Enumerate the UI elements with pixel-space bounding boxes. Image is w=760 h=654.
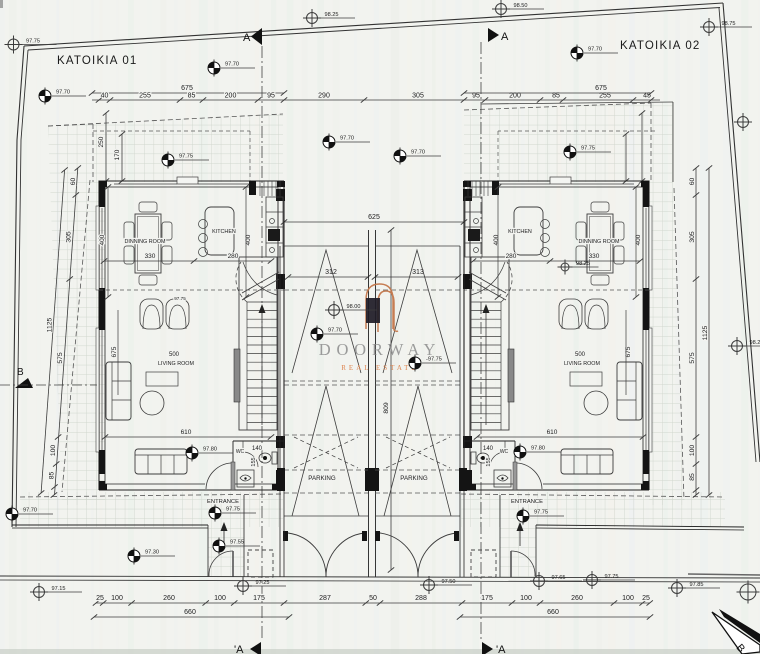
svg-text:97.85: 97.85	[690, 582, 704, 588]
plot boundary outer line	[24, 3, 723, 46]
svg-text:675: 675	[181, 85, 193, 92]
window left wall lower	[645, 330, 647, 450]
svg-text:255: 255	[599, 93, 611, 100]
svg-text:DINNING ROOM: DINNING ROOM	[124, 239, 166, 245]
spot level 97.30	[128, 548, 175, 565]
spot level 97.70	[39, 88, 86, 105]
svg-text:97.70: 97.70	[411, 150, 425, 156]
toilet	[259, 453, 271, 463]
svg-text:-97.75: -97.75	[426, 357, 442, 363]
dimension 250/170 right	[641, 113, 643, 181]
left house exterior wall outline	[464, 181, 649, 490]
svg-text:97.70: 97.70	[225, 62, 239, 68]
dining table	[587, 214, 613, 273]
svg-text:660: 660	[547, 609, 559, 616]
armchairs	[140, 299, 163, 329]
benchmark 97.75	[5, 36, 57, 54]
dimension 660 bottom left	[94, 616, 289, 618]
svg-text:100: 100	[214, 595, 226, 602]
dimension 660 bottom right	[460, 616, 650, 618]
svg-text:25: 25	[642, 595, 650, 602]
benchmark 98.25	[728, 337, 760, 355]
svg-text:1125: 1125	[46, 317, 53, 332]
window top wall 1	[571, 183, 634, 185]
watermark doorway arch	[366, 284, 398, 332]
wall poche segments	[99, 181, 107, 187]
left house	[93, 131, 285, 490]
washbasin	[237, 470, 254, 487]
benchmark 97.50	[420, 576, 472, 594]
wall poche segments	[641, 181, 649, 187]
dimension 170 left	[121, 134, 123, 181]
walkway right	[535, 525, 537, 577]
spot level -97.75	[409, 355, 456, 372]
stair winder arc	[236, 262, 247, 302]
dimension 312	[288, 276, 368, 278]
svg-text:'A: 'A	[496, 644, 506, 654]
svg-text:290: 290	[318, 93, 330, 100]
dimension chain bottom row1	[96, 602, 650, 604]
svg-text:97.75: 97.75	[605, 574, 619, 580]
interior dims right house	[473, 260, 640, 262]
window left wall upper	[101, 208, 103, 288]
spot level 97.75	[162, 152, 209, 169]
svg-text:97.80: 97.80	[203, 447, 217, 453]
svg-text:25: 25	[96, 595, 104, 602]
wc partition	[233, 440, 284, 442]
svg-text:98.25: 98.25	[325, 12, 339, 18]
sofa bottom	[561, 449, 613, 474]
svg-text:200: 200	[509, 93, 521, 100]
dining table	[135, 214, 161, 273]
center dividing wall	[368, 230, 370, 577]
svg-text:98.25: 98.25	[750, 340, 760, 346]
kitchen island	[514, 207, 543, 255]
spot level 97.70	[394, 148, 441, 165]
svg-text:313: 313	[412, 269, 424, 276]
svg-text:KATOIKIA 02: KATOIKIA 02	[620, 40, 701, 52]
svg-text:ENTRANCE: ENTRANCE	[511, 499, 543, 505]
svg-text:100: 100	[50, 445, 57, 457]
svg-text:85: 85	[48, 472, 55, 480]
svg-text:575: 575	[57, 352, 64, 364]
upper floor dashed line	[93, 130, 250, 132]
svg-text:400: 400	[493, 234, 500, 245]
svg-text:305: 305	[66, 231, 73, 243]
svg-text:170: 170	[114, 149, 121, 160]
svg-text:500: 500	[169, 352, 180, 358]
stair arrow	[261, 310, 263, 425]
wc partition	[464, 440, 515, 442]
svg-text:WC: WC	[236, 449, 245, 455]
double gate left lane	[288, 533, 326, 577]
spot level 97.75	[564, 144, 611, 161]
svg-text:'A: 'A	[234, 644, 244, 654]
svg-text:97.75: 97.75	[581, 146, 595, 152]
street line	[0, 576, 760, 578]
dimension chain top (675 overall left)	[92, 92, 284, 94]
svg-text:97.75: 97.75	[226, 507, 240, 513]
window top wall 2	[198, 183, 249, 185]
svg-text:97.65: 97.65	[552, 575, 566, 581]
benchmark 98.50	[492, 0, 544, 18]
upper floor dashed line	[498, 130, 655, 132]
coffee table	[584, 391, 608, 415]
section marker A bottom-right	[482, 642, 506, 654]
entrance door	[231, 462, 235, 490]
svg-text:97.70: 97.70	[56, 90, 70, 96]
svg-text:675: 675	[595, 85, 607, 92]
benchmark 97.85	[668, 579, 720, 597]
section marker A top-right	[488, 28, 509, 43]
staircase	[471, 257, 509, 430]
window left wall lower	[101, 330, 103, 450]
kitchen stools	[541, 220, 550, 229]
svg-text:97.75: 97.75	[174, 296, 186, 301]
section marker A bottom-left	[234, 642, 261, 654]
building envelope dashed right	[464, 103, 651, 110]
svg-text:B: B	[17, 367, 24, 378]
svg-text:140: 140	[252, 446, 263, 452]
svg-text:97.70: 97.70	[23, 508, 37, 514]
svg-text:97.50: 97.50	[442, 579, 456, 585]
svg-text:100: 100	[520, 595, 532, 602]
benchmark 97.15	[30, 583, 82, 601]
svg-text:WC: WC	[500, 449, 509, 455]
window sill top	[177, 177, 198, 184]
svg-text:98.25: 98.25	[576, 261, 590, 267]
svg-text:ENTRANCE: ENTRANCE	[207, 499, 239, 505]
gate pillar dashed left	[248, 550, 273, 577]
wc door arc	[243, 452, 258, 467]
sofa vertical	[106, 362, 131, 420]
window top wall 1	[114, 183, 177, 185]
svg-text:95: 95	[472, 93, 480, 100]
benchmark 97.75	[583, 571, 635, 589]
svg-text:KATOIKIA 01: KATOIKIA 01	[57, 55, 138, 67]
svg-text:60: 60	[689, 178, 696, 186]
dining chairs	[139, 202, 157, 212]
svg-text:287: 287	[319, 595, 331, 602]
dimension chain right side	[695, 168, 697, 495]
svg-text:85: 85	[188, 93, 196, 100]
north arrow B bottom right	[712, 609, 760, 654]
spot level 97.80	[514, 444, 561, 461]
toilet	[477, 453, 489, 463]
veranda tiles right house	[464, 102, 673, 182]
svg-text:LIVING ROOM: LIVING ROOM	[158, 361, 194, 367]
svg-text:DOORWAY: DOORWAY	[319, 340, 442, 359]
svg-text:675: 675	[111, 346, 118, 357]
staircase	[239, 257, 277, 430]
svg-text:98.00: 98.00	[347, 304, 361, 310]
window sill top	[550, 177, 571, 184]
svg-text:97.70: 97.70	[340, 136, 354, 142]
dimension 625 center	[284, 221, 464, 223]
svg-text:280: 280	[228, 253, 239, 260]
svg-text:97.75: 97.75	[534, 510, 548, 516]
left house exterior wall outline	[99, 181, 284, 490]
veranda dashed south edge	[20, 494, 283, 497]
stair side wall	[508, 349, 514, 402]
front fence left	[12, 524, 208, 526]
kitchen counter	[266, 197, 283, 257]
lane solid bottom line	[284, 515, 368, 517]
dining chairs	[591, 202, 609, 212]
svg-text:100: 100	[622, 595, 634, 602]
watermark door panel	[366, 298, 380, 323]
svg-text:95: 95	[267, 93, 275, 100]
svg-text:97.30: 97.30	[145, 550, 159, 556]
benchmark 98.25	[303, 9, 355, 27]
svg-text:97.55: 97.55	[230, 540, 244, 546]
dimension 250 left	[105, 113, 107, 181]
kitchen island	[205, 207, 234, 255]
svg-text:97.75: 97.75	[179, 154, 193, 160]
counter hatch	[487, 181, 489, 196]
svg-text:155: 155	[251, 457, 257, 466]
washbasin	[494, 470, 511, 487]
dimension 1125 left	[41, 170, 65, 493]
walkway gate left	[209, 551, 233, 576]
svg-text:85: 85	[689, 473, 696, 481]
lane hatch triangles left	[292, 250, 361, 373]
floor overhang dashed across	[464, 289, 649, 291]
small benchmark 98.25 dining right	[558, 260, 599, 275]
svg-text:140: 140	[483, 446, 494, 452]
svg-text:200: 200	[225, 93, 237, 100]
svg-text:97.75: 97.75	[26, 39, 40, 45]
floor overhang dashed across	[99, 289, 284, 291]
svg-text:400: 400	[99, 234, 106, 245]
svg-text:97.70: 97.70	[328, 328, 342, 334]
svg-text:575: 575	[689, 352, 696, 364]
parking lane edges	[284, 245, 368, 247]
veranda tiles left house	[48, 114, 283, 182]
benchmark 98.75	[700, 18, 752, 36]
svg-text:97.15: 97.15	[52, 586, 66, 592]
stair arrow	[485, 310, 487, 425]
kitchen counter	[465, 197, 482, 257]
svg-text:1125: 1125	[702, 325, 709, 340]
dimension 313	[375, 276, 458, 278]
armchairs	[585, 299, 608, 329]
svg-text:97.80: 97.80	[531, 446, 545, 452]
section line A-A left	[261, 46, 263, 641]
stair side wall	[234, 349, 240, 402]
spot level 97.70	[311, 326, 358, 343]
walkway arrow right	[519, 527, 521, 546]
building envelope dashed left	[48, 114, 283, 126]
svg-text:260: 260	[571, 595, 583, 602]
plot boundary inner line	[28, 8, 720, 51]
svg-text:260: 260	[163, 595, 175, 602]
svg-text:255: 255	[139, 93, 151, 100]
interior dims left house	[104, 260, 271, 262]
svg-text:312: 312	[325, 269, 337, 276]
dimension chain top (675 overall right)	[464, 92, 651, 94]
svg-text:100: 100	[689, 445, 696, 457]
svg-text:KITCHEN: KITCHEN	[212, 229, 236, 235]
double gate right lane	[380, 533, 418, 577]
svg-text:97.70: 97.70	[588, 47, 602, 53]
svg-text:280: 280	[506, 253, 517, 260]
svg-text:PARKING: PARKING	[400, 475, 428, 482]
svg-text:50: 50	[369, 595, 377, 602]
window top wall 2	[499, 183, 550, 185]
spot level 97.70	[6, 506, 53, 523]
veranda slab edge right house	[481, 102, 673, 104]
spot level 97.70	[208, 60, 255, 77]
svg-text:250: 250	[98, 136, 105, 147]
spot level 97.70	[571, 45, 618, 62]
lane side walls	[279, 246, 281, 577]
svg-text:DINNING ROOM: DINNING ROOM	[578, 239, 620, 245]
svg-text:330: 330	[145, 253, 156, 260]
svg-text:175: 175	[481, 595, 493, 602]
dimension 809 vertical	[390, 230, 392, 570]
counter hatch	[259, 181, 261, 196]
spot level 97.80	[186, 445, 233, 462]
left house wall to parking	[469, 187, 471, 490]
svg-text:625: 625	[368, 214, 380, 221]
svg-text:330: 330	[589, 253, 600, 260]
kitchen sink	[468, 229, 480, 241]
svg-text:610: 610	[547, 429, 558, 436]
benchmark 97.65	[530, 572, 582, 590]
entrance door	[513, 462, 517, 490]
gate pillar dashed right	[471, 550, 496, 577]
lane dashed cross lines	[284, 289, 368, 291]
svg-text:85: 85	[552, 93, 560, 100]
walkway gate right	[511, 551, 535, 576]
svg-text:500: 500	[575, 352, 586, 358]
dimension chain left side	[55, 168, 78, 495]
lane hatch triangles right	[383, 250, 452, 373]
front fence right	[536, 525, 744, 527]
stair break line	[242, 279, 279, 300]
benchmark	[734, 113, 752, 131]
svg-text:A: A	[243, 32, 251, 44]
kitchen sink	[268, 229, 280, 241]
spot level 97.75	[209, 505, 256, 522]
svg-text:288: 288	[415, 595, 427, 602]
svg-text:155: 155	[486, 457, 492, 466]
svg-text:PARKING: PARKING	[308, 475, 336, 482]
svg-text:100: 100	[111, 595, 123, 602]
section marker A top-left	[243, 28, 262, 45]
spot level 97.75	[517, 508, 564, 525]
svg-text:KITCHEN: KITCHEN	[508, 229, 532, 235]
left house wall to parking	[277, 187, 279, 490]
svg-text:97.25: 97.25	[256, 580, 270, 586]
walkway arrow left	[223, 527, 225, 546]
dimension chain top left house	[92, 99, 660, 101]
spot level 97.55	[213, 538, 260, 555]
svg-text:809: 809	[383, 402, 390, 414]
sofa bottom	[135, 449, 187, 474]
svg-text:LIVING ROOM: LIVING ROOM	[564, 361, 600, 367]
dimension 1125 right	[708, 168, 710, 495]
svg-text:40: 40	[101, 93, 109, 100]
svg-text:98.75: 98.75	[722, 21, 736, 27]
benchmark 97.25	[234, 577, 286, 595]
svg-text:A: A	[501, 31, 509, 43]
walkway left	[207, 525, 209, 577]
spot level 97.70	[323, 134, 370, 151]
sofa vertical	[617, 362, 642, 420]
svg-text:98.50: 98.50	[514, 3, 528, 9]
wc door arc	[490, 452, 505, 467]
benchmark 98.00	[325, 301, 377, 319]
window left wall upper	[645, 208, 647, 288]
kitchen stools	[199, 220, 208, 229]
stair break line	[469, 279, 506, 300]
svg-text:60: 60	[70, 178, 77, 186]
svg-text:175: 175	[253, 595, 265, 602]
coffee table	[140, 391, 164, 415]
svg-text:305: 305	[689, 231, 696, 243]
right house (mirrored)	[463, 131, 655, 490]
section line A-A right	[480, 42, 482, 641]
svg-text:305: 305	[412, 93, 424, 100]
stair winder arc	[501, 262, 512, 302]
svg-text:610: 610	[181, 429, 192, 436]
svg-text:660: 660	[184, 609, 196, 616]
svg-text:REAL ESTATE: REAL ESTATE	[341, 364, 418, 372]
